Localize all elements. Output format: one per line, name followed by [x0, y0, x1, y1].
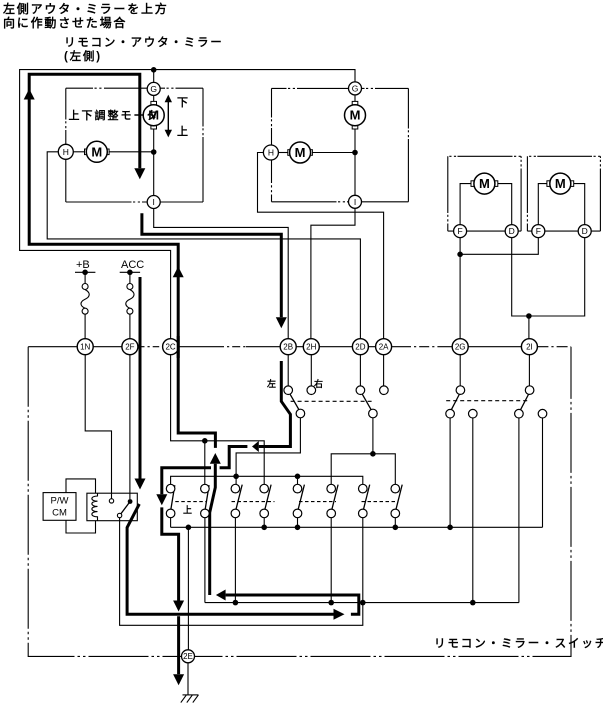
motor M1 vertical (left mirror up/down) with brush tabs	[151, 101, 157, 104]
svg-text:上: 上	[177, 124, 188, 138]
wire: pole1 bottom to rail left end	[170, 518, 172, 528]
svg-text:2H: 2H	[306, 342, 316, 351]
terminal G (right mirror)	[349, 82, 362, 95]
flow arrow: down left of pole1	[156, 494, 167, 505]
flow arrow: up on 2C riser	[173, 267, 184, 278]
wire: left G to vertical motor M to node to terminal I	[153, 95, 155, 104]
wire: connector 2B down to left-switch contact	[287, 355, 289, 386]
flow arrow: down toward bottom run	[173, 601, 184, 612]
svg-text:上: 上	[183, 504, 192, 515]
node: D link junction to 2I	[526, 313, 532, 319]
bus: chain-dash segment between 2F and 2C	[138, 346, 163, 348]
wire: fold switch contact down to return line node	[472, 418, 474, 603]
wire: fold switch contact down to bottom rail	[449, 418, 451, 527]
wire: pole4 bottom to rail	[263, 518, 265, 528]
relay normally-open contact	[117, 513, 121, 517]
node: F1 junction to F2	[457, 252, 463, 258]
relay coil winding	[92, 493, 98, 521]
node: left mirror motor common	[151, 149, 157, 155]
bank pole top contacts 1-8	[166, 484, 175, 493]
flow arrow: down into relay	[135, 479, 146, 490]
node: return line at pole3	[233, 600, 239, 606]
wire: motor M3 to terminals F and D	[460, 184, 474, 225]
connector 2E	[182, 650, 195, 663]
svg-text:2C: 2C	[165, 342, 175, 351]
component box: P/W CM control module	[43, 493, 76, 521]
svg-text:左: 左	[266, 378, 276, 389]
node: bottom rail at pole4	[261, 525, 267, 531]
switch SW-L lever (left mirror select)	[290, 394, 300, 411]
svg-text:2G: 2G	[455, 342, 466, 351]
bus: chain-dash segment right of 2I	[537, 346, 571, 348]
terminal dot: ACC	[127, 270, 133, 276]
node: bottom rail at pole8	[393, 525, 399, 531]
flow arrow: left into corner above bank	[252, 441, 259, 452]
bank pole levers	[171, 485, 175, 509]
svg-text:M: M	[479, 176, 490, 191]
wire: junction on D link down to connector 2I	[528, 316, 530, 339]
ground: hatched earth symbol below 2E	[183, 694, 199, 696]
power feed ACC: terminal bar and lead to fuse	[120, 271, 140, 273]
node: top rail at pole3	[233, 474, 239, 480]
svg-text:右: 右	[313, 378, 323, 389]
node: bottom rail at pole5	[295, 525, 301, 531]
terminal G (left mirror)	[147, 82, 160, 95]
wire: left H to horizontal motor M	[73, 151, 86, 153]
wire: pole3 bottom down to return line	[234, 518, 236, 603]
flow wire: below 2B through SW-L, left along return	[259, 361, 291, 447]
wire: bank return line	[205, 602, 519, 604]
wire: rail node down to connector 2E and ground lead	[187, 527, 189, 650]
svg-text:上下調整モータ: 上下調整モータ	[69, 108, 160, 122]
svg-text:M: M	[350, 108, 361, 123]
wire: connector 2F down to relay common contact	[129, 355, 131, 500]
node: SW-R lower junction	[370, 451, 376, 457]
svg-text:左側アウタ・ミラーを上方: 左側アウタ・ミラーを上方	[2, 1, 169, 16]
wire: connector 2D down to right-switch contact	[359, 355, 361, 386]
bus: chain-dash segment between 2A and 2G	[401, 346, 441, 348]
wire: 2C feed loop (2C up, left, up, top bus to right mirror G)	[20, 70, 355, 339]
wire: SW-L lower contact down to rail node at pole3	[236, 418, 300, 477]
mechanical stroke indicator: up/down double arrow	[167, 100, 169, 133]
connector 2I	[521, 339, 537, 355]
svg-text:G: G	[352, 83, 359, 93]
flow wire: left mirror I out, right and down to 2B	[142, 213, 281, 317]
connector 2C	[163, 339, 179, 355]
svg-text:2D: 2D	[355, 342, 365, 351]
wire: connector 2A down to right-switch contact	[383, 355, 385, 386]
flow arrow: down into left mirror motor	[134, 168, 145, 179]
wire: right H out to connector 2A	[258, 153, 384, 339]
switch SW-FG contacts	[456, 386, 465, 395]
svg-text:下: 下	[177, 96, 188, 109]
svg-text:D: D	[582, 226, 588, 236]
wire: SW-R lower contact down with branches to pole6 and pole8	[372, 418, 374, 454]
wire: right I out to connector 2H	[311, 208, 355, 338]
node: top bus junction to left G	[151, 67, 157, 73]
wire: motor M4 to terminals F and D	[538, 184, 549, 225]
node: relay common contact	[128, 499, 133, 504]
flow arrow: down into 2B	[276, 317, 287, 328]
flow wire: through relay contact, down and right along bottom	[127, 504, 333, 614]
wire: left horizontal motor M to node on G-I line	[107, 151, 153, 153]
flow wire: pole2 top to 2C riser, across top, down into left mirror G	[29, 74, 215, 448]
bank pole bottom contacts 1-8	[166, 509, 175, 518]
svg-text:M: M	[555, 176, 566, 191]
node: right mirror motor common	[352, 150, 358, 156]
motor M6 (right fold unit) with brush tabs	[547, 181, 550, 187]
power feed +B: terminal bar and lead to fuse	[75, 271, 95, 273]
connector 2G	[452, 339, 468, 355]
relay coil terminal	[109, 499, 113, 503]
node: 2C line branch to pole2	[202, 438, 208, 444]
switch SW-R upper contacts	[356, 386, 365, 395]
component box: relay case	[87, 493, 137, 521]
svg-text:リモコン・アウタ・ミラー: リモコン・アウタ・ミラー	[64, 35, 224, 49]
fuse F2 body circles (ACC)	[127, 284, 133, 290]
svg-text:リモコン・ミラー・スイッチ: リモコン・ミラー・スイッチ	[434, 637, 603, 650]
svg-text:F: F	[457, 226, 462, 236]
wire: left I out to connector 2B	[154, 209, 289, 339]
svg-text:P/W: P/W	[51, 496, 69, 507]
component box: right remote outer mirror (chain line with dot breaks)	[272, 88, 409, 201]
terminal I (right mirror)	[349, 195, 362, 208]
svg-text:H: H	[63, 147, 69, 157]
switch SW-FI lever	[520, 394, 528, 410]
flow wire: ACC feed down to relay common	[139, 277, 142, 479]
motor M3 vertical (right mirror up/down) with brush tabs	[352, 101, 358, 104]
node: bottom rail at fold switch drop	[447, 525, 453, 531]
svg-text:(左側): (左側)	[64, 49, 102, 63]
wire: right horizontal motor M to node	[311, 152, 355, 154]
svg-text:F: F	[536, 226, 541, 236]
connector 1N	[77, 339, 93, 355]
wire: fold switch contact down to bottom rail right end	[542, 418, 544, 527]
switch SW-L upper contacts	[284, 386, 293, 395]
wire: right G to vertical motor M to node to terminal I	[354, 95, 356, 105]
node: top rail at pole5	[295, 474, 301, 480]
fuse F+B: squiggle between circles	[81, 290, 89, 309]
wire: pole6 bottom down to return line	[330, 518, 332, 603]
wire: P/W CM to relay coil bottom bracket	[66, 520, 96, 533]
mechanical link dashed: left/right select switches	[291, 400, 372, 402]
wire: right H to horizontal motor M	[278, 152, 289, 154]
wire: connector 1N down to relay coil terminal	[85, 355, 111, 499]
component box: left mirror fold motor unit (chain line with dot breaks)	[448, 156, 521, 231]
relay lever (movable contact)	[120, 502, 131, 516]
connector 2H	[303, 339, 319, 355]
svg-text:I: I	[153, 197, 155, 207]
svg-text:M: M	[91, 144, 102, 159]
connector 2D	[352, 339, 368, 355]
svg-text:M: M	[295, 145, 306, 160]
wire: left H out to connector 2D	[47, 152, 360, 339]
flow arrow: down to ground	[173, 674, 184, 685]
switch SW-FG lever	[451, 394, 459, 410]
fuse FACC: squiggle between circles	[126, 290, 134, 309]
wire: connector 2G down to fold-switch contact	[459, 355, 461, 386]
node: return line at pole7 / relay riser	[360, 600, 366, 606]
wire: F1 down to connector 2G, junction to F2	[459, 238, 461, 339]
terminal I (left mirror)	[147, 196, 160, 209]
wire: pole8 bottom to rail	[394, 518, 396, 528]
svg-text:1N: 1N	[80, 342, 90, 351]
component box: remote mirror switch boundary (chain line, left/bottom/right)	[28, 347, 571, 657]
terminal H (right mirror)	[263, 145, 278, 160]
svg-text:H: H	[268, 148, 274, 158]
bus: connector row solid segments	[28, 346, 138, 348]
flow arrow: left along middle return	[216, 590, 226, 601]
wire: bank top rail connecting poles 1,3,5,7	[171, 476, 363, 484]
switch SW-L lower contact	[296, 409, 305, 418]
component box: right mirror fold motor unit (chain line with dot breaks)	[527, 156, 600, 231]
svg-text:I: I	[354, 197, 356, 207]
terminal D (left fold unit)	[505, 225, 518, 238]
fuse F1 body circles (+B)	[82, 284, 88, 290]
node: bottom rail to 2E	[186, 525, 192, 531]
flow wire: down to ground via 2E	[177, 616, 180, 674]
svg-text:D: D	[509, 226, 515, 236]
mechanical link dashed: main bank pairs	[175, 501, 206, 503]
component box: left remote outer mirror (chain line with dot breaks)	[66, 88, 203, 202]
flow wire: bottom corner up and left return	[226, 595, 359, 614]
flow arrow: right along bottom run	[334, 609, 345, 620]
node: return line at fold switch drop	[470, 600, 476, 606]
terminal F (right fold unit)	[532, 225, 545, 238]
svg-text:2E: 2E	[183, 652, 193, 661]
wire: relay output down, right, up to bank return line	[120, 518, 363, 626]
terminal dot: +B	[82, 270, 88, 276]
wire: fold switch contact down to return line end	[518, 418, 520, 603]
bus: chain-dash segment between 2C and 2B	[216, 346, 246, 348]
wire: connector 2I down to fold-switch contact	[528, 355, 530, 386]
flow wire: 2C riser overdraw at connector	[177, 336, 180, 358]
wire: connector 2C down to pole4, junction to pole2	[171, 355, 265, 485]
wire: bank bottom rail	[171, 526, 543, 528]
wire: pole7 bottom down to return line	[362, 518, 364, 603]
wire: branch from top bus junction down to left mirror G	[153, 70, 155, 83]
svg-text:CM: CM	[52, 508, 67, 519]
switch SW-R lever (right mirror select)	[362, 394, 372, 411]
connector 2F	[122, 339, 138, 355]
wire: pole2 bottom down to return line left end	[204, 518, 206, 603]
wire: D1 to D2 cross link	[512, 238, 585, 316]
svg-text:+B: +B	[76, 259, 90, 271]
svg-text:2I: 2I	[526, 342, 533, 351]
node: return line at pole6	[328, 600, 334, 606]
motor M4 horizontal (right mirror left/right) with brush tabs	[288, 150, 291, 156]
wire: pole5 bottom to rail	[297, 518, 299, 528]
wire: P/W CM to relay coil top bracket	[66, 479, 96, 493]
switch SW-FI contacts	[525, 386, 534, 395]
connector 2A	[376, 339, 392, 355]
svg-text:2A: 2A	[379, 342, 389, 351]
motor M5 (left fold unit) with brush tabs	[471, 181, 474, 187]
flow wire: up through bank pole2	[210, 464, 216, 595]
flow wire: around pole1 to lower run	[162, 507, 179, 600]
svg-text:2B: 2B	[283, 342, 293, 351]
svg-text:G: G	[150, 84, 157, 94]
mechanical link dashed: fold switches	[446, 400, 528, 402]
terminal F (left fold unit)	[454, 225, 467, 238]
wire: connector 2H down to left-switch contact	[310, 355, 312, 386]
svg-text:2F: 2F	[125, 342, 134, 351]
flow arrow: up on left outer riser	[24, 89, 35, 100]
terminal D (right fold unit)	[578, 225, 591, 238]
svg-text:向に作動させた場合: 向に作動させた場合	[3, 15, 127, 30]
terminal H (left mirror)	[58, 144, 73, 159]
switch SW-R lower contact	[369, 409, 378, 418]
motor M2 horizontal (left mirror left/right) with brush tabs	[85, 149, 88, 155]
connector 2B	[280, 339, 296, 355]
flow arrow: up through pole2	[210, 453, 221, 464]
svg-text:ACC: ACC	[121, 259, 144, 271]
